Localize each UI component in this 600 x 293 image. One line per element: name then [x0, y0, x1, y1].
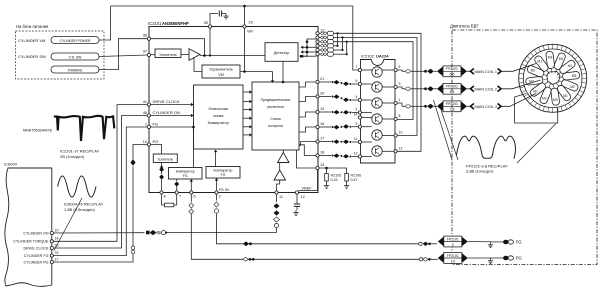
- node CYLINDER POWER: [51, 37, 99, 44]
- svg-text:2: 2: [452, 243, 454, 247]
- logic Логическая схема Коммутатор box: [194, 85, 244, 149]
- svg-text:35: 35: [204, 21, 208, 25]
- svg-text:R2106: R2106: [351, 174, 362, 178]
- svg-text:19: 19: [320, 107, 324, 111]
- ground C12: [293, 210, 298, 215]
- svg-text:MAIN COIL 3: MAIN COIL 3: [475, 105, 497, 109]
- node MAIN COIL 3: [467, 104, 501, 110]
- junction rail-pin29: [243, 5, 246, 8]
- svg-text:Двигатель БВГ: Двигатель БВГ: [450, 24, 479, 29]
- label IC6004-76 REC/PLAY: [64, 202, 104, 213]
- pins 21 20 19 16 17 18: [316, 77, 324, 157]
- wire coil 3 to motor: [502, 94, 537, 107]
- pin 35: [204, 21, 212, 28]
- wire CYLINDER POWER to VM rail: [99, 6, 111, 40]
- svg-text:12: 12: [399, 147, 403, 151]
- wire W3 beads: [243, 257, 438, 261]
- svg-text:CYLINDER POWER: CYLINDER POWER: [60, 39, 91, 43]
- svg-text:M1: M1: [538, 60, 543, 64]
- svg-text:CTL SW: CTL SW: [69, 56, 82, 60]
- svg-text:FP2101: FP2101: [447, 237, 459, 241]
- wire net A to IC2102 pin12: [333, 33, 421, 151]
- pin 8: [160, 191, 166, 199]
- svg-text:DRIVE CLOCK: DRIVE CLOCK: [24, 246, 50, 250]
- svg-text:6: 6: [356, 79, 358, 83]
- wire coil 2 to motor: [502, 80, 541, 89]
- waveform MN6755324M7E head-switch: [54, 116, 115, 141]
- wire W3 pg out: [189, 194, 419, 259]
- svg-text:18: 18: [320, 150, 324, 154]
- wire W2 drive clock out: [214, 194, 419, 244]
- svg-text:2,8В (1ms/дел): 2,8В (1ms/дел): [466, 169, 494, 174]
- node FG terminal: [503, 240, 522, 245]
- capacitor C12 at pin 12: [294, 194, 300, 210]
- svg-text:10: 10: [451, 259, 455, 263]
- svg-text:IC6004: IC6004: [4, 162, 18, 167]
- svg-text:M3: M3: [529, 79, 534, 83]
- op-amp A3 (lower triangle): [274, 163, 286, 181]
- connector FP2101 3,4: [437, 83, 467, 94]
- svg-text:MAIN COIL 2: MAIN COIL 2: [475, 87, 497, 91]
- svg-text:Коммутатор: Коммутатор: [208, 121, 229, 125]
- wire pin41 to logic: [151, 103, 194, 106]
- svg-text:10: 10: [399, 131, 403, 135]
- svg-text:14: 14: [354, 113, 358, 117]
- ferrite beads IC2101 to IC2102: [319, 80, 359, 159]
- wire motor common loop: [515, 94, 558, 124]
- wire pin10 PG: [151, 145, 162, 155]
- svg-text:IC2102: IC2102: [361, 54, 375, 59]
- wire det arrow 3: [301, 55, 307, 58]
- svg-text:Усилитель: Усилитель: [157, 158, 173, 162]
- svg-text:CYLINDER PG: CYLINDER PG: [24, 260, 49, 264]
- wire comparator2 to logic: [214, 150, 217, 167]
- wire net C pair: [333, 41, 348, 56]
- svg-text:PG: PG: [516, 256, 522, 261]
- pin 10 PG: [143, 139, 159, 146]
- wire VM to IC2102 pin7: [353, 6, 359, 70]
- svg-text:Детектор: Детектор: [274, 51, 290, 55]
- pin 1 FG: [145, 122, 158, 129]
- svg-text:FG: FG: [153, 122, 159, 127]
- svg-text:4: 4: [356, 95, 358, 99]
- svg-text:CYLINDER ON: CYLINDER ON: [23, 231, 49, 235]
- svg-text:76: 76: [55, 251, 59, 255]
- wire pin13 to R2106: [319, 168, 347, 174]
- wire PG to pin10: [53, 145, 147, 263]
- wire comp1 to pin7: [174, 179, 179, 191]
- node CTL SW: [51, 53, 99, 60]
- node MAIN COIL 2: [467, 86, 501, 92]
- motor coil labels: [529, 55, 576, 102]
- capacitor C35 at pin 35: [210, 11, 226, 25]
- junction limiter-VM: [243, 70, 246, 73]
- label VREF: [302, 187, 313, 191]
- svg-text:3: 3: [399, 82, 401, 86]
- wire preamp outputs: [297, 82, 316, 168]
- resistor R between pins 8 and 7: [162, 194, 177, 207]
- wire W2 beads: [243, 241, 437, 246]
- svg-text:IC2101-37 REC/PLAY: IC2101-37 REC/PLAY: [60, 149, 100, 154]
- wire FG to pin1: [53, 127, 147, 256]
- svg-text:TRIWAVE: TRIWAVE: [67, 69, 83, 73]
- ground PG lead: [488, 258, 493, 263]
- svg-text:VREF: VREF: [302, 187, 313, 191]
- node MAIN COIL 1: [467, 69, 501, 75]
- motor coils: [525, 51, 580, 106]
- wire net B to IC2102 pin10: [333, 38, 417, 136]
- svg-text:VM: VM: [247, 30, 253, 34]
- wire FG lead: [468, 241, 504, 244]
- waveform FP2101-3-8: [457, 136, 516, 159]
- wire pin1 FG to logic: [151, 126, 194, 128]
- connector FP2101 2: [438, 236, 468, 247]
- svg-text:11: 11: [279, 195, 283, 199]
- svg-text:MAIN COIL 1: MAIN COIL 1: [475, 70, 497, 74]
- svg-text:13: 13: [320, 163, 324, 167]
- svg-text:0,47: 0,47: [351, 178, 358, 182]
- label CYLINDER VM: [18, 38, 45, 43]
- svg-text:17: 17: [55, 257, 59, 261]
- pin 7: [175, 191, 181, 199]
- motor dashed box Двигатель БВГ: [450, 24, 597, 265]
- svg-text:2В (1ms/дел): 2В (1ms/дел): [60, 154, 85, 159]
- svg-text:Компаратор: Компаратор: [176, 169, 195, 173]
- pin 13 (IC2101): [316, 163, 324, 170]
- svg-text:10: 10: [143, 140, 147, 144]
- svg-text:8: 8: [399, 114, 401, 118]
- svg-text:FG IN: FG IN: [219, 188, 229, 192]
- wire pin35 internal: [209, 28, 211, 57]
- node TRIWAVE: [51, 66, 99, 73]
- svg-text:M2: M2: [559, 57, 564, 61]
- svg-text:FP2101: FP2101: [447, 254, 459, 258]
- wire IC2102 out to FP2101 7,8: [397, 103, 437, 109]
- wire TORQUE to pin41: [53, 105, 147, 242]
- svg-text:AN3850NFHP: AN3850NFHP: [162, 21, 189, 26]
- wire amp-A1: [181, 54, 189, 56]
- ground R2105: [324, 183, 329, 188]
- leader sine label: [54, 198, 82, 251]
- wire det arrow 2: [301, 50, 317, 53]
- svg-text:48: 48: [143, 111, 147, 115]
- wire FG IN label: [219, 188, 229, 192]
- svg-text:CYLINDER TORQUE: CYLINDER TORQUE: [13, 240, 49, 244]
- ground R2106: [344, 183, 349, 188]
- wire pin48 to logic: [151, 114, 194, 117]
- motor stator ring: [519, 44, 587, 112]
- leader line 1: [434, 100, 453, 160]
- svg-text:M2: M2: [570, 85, 575, 89]
- svg-text:7: 7: [356, 65, 358, 69]
- components on W1: [146, 230, 167, 235]
- waveform IC6004-76 sine: [58, 176, 96, 197]
- driver transistors Q1-Q6: [372, 67, 382, 156]
- pin 36: [143, 34, 151, 41]
- svg-text:6: 6: [194, 195, 196, 199]
- wire IC2102 out to FP2101 5,6: [397, 69, 437, 74]
- pin 11: [275, 191, 283, 199]
- svg-text:5: 5: [399, 65, 401, 69]
- wire FG down to comparator: [192, 126, 195, 168]
- svg-text:Предварительные: Предварительные: [261, 98, 291, 102]
- wire amp FG to pin8: [159, 163, 164, 191]
- wire coil 1 to motor: [502, 64, 537, 72]
- ground at C35: [223, 14, 228, 19]
- svg-text:8: 8: [164, 195, 166, 199]
- wire IC2102 out to FP2101 3,4: [397, 86, 437, 91]
- svg-text:R2105: R2105: [331, 174, 342, 178]
- svg-text:M1: M1: [568, 64, 573, 68]
- pin 3: [215, 191, 221, 199]
- connector FP2101 10: [438, 253, 468, 264]
- svg-text:FG: FG: [516, 240, 522, 245]
- IC2102 right pins: [394, 65, 402, 153]
- wire det top tap: [306, 39, 317, 43]
- connector FP2101 7,8: [437, 101, 467, 112]
- comparator Компаратор FG 2: [206, 167, 240, 179]
- svg-text:1: 1: [145, 123, 147, 127]
- svg-text:29: 29: [249, 21, 253, 25]
- op-amp A2 (upper triangle): [278, 150, 290, 163]
- label FP2101-3-8 REC/PLAY: [466, 164, 508, 174]
- wire VM top rail: [111, 5, 353, 7]
- label MN6755324M7E: [23, 128, 53, 133]
- svg-text:IC6004-76 REC/PLAY: IC6004-76 REC/PLAY: [64, 202, 104, 207]
- svg-text:17: 17: [320, 136, 324, 140]
- wire limiter to preamp: [271, 72, 274, 84]
- svg-text:CYLINDER SW: CYLINDER SW: [18, 54, 46, 59]
- svg-text:1: 1: [399, 98, 401, 102]
- svg-text:PG: PG: [153, 139, 159, 144]
- svg-text:0,33: 0,33: [331, 178, 338, 182]
- svg-text:Схема: Схема: [270, 117, 281, 121]
- wire limiter output: [240, 71, 273, 73]
- svg-text:VM: VM: [218, 73, 223, 77]
- leader line 2: [439, 104, 458, 160]
- power connector dashed box (На блок питания): [16, 31, 105, 79]
- wire A1 to limiter input: [194, 57, 202, 72]
- wire det arrow 1: [301, 46, 317, 49]
- ground FG lead: [488, 242, 493, 247]
- svg-text:контроля: контроля: [268, 124, 283, 128]
- svg-text:FG: FG: [183, 174, 188, 178]
- svg-text:IC2101: IC2101: [148, 21, 162, 26]
- svg-text:M3: M3: [548, 55, 553, 59]
- wire detector sense vertical: [306, 39, 308, 57]
- svg-text:41: 41: [143, 100, 147, 104]
- wire net C to IC2102 pin8: [333, 42, 413, 120]
- pins 23-28 drive outputs: [316, 29, 325, 56]
- svg-text:3: 3: [219, 195, 221, 199]
- svg-text:1,5В (0.5ms/дел): 1,5В (0.5ms/дел): [64, 207, 95, 212]
- node PG terminal: [503, 256, 522, 261]
- pin 37: [143, 50, 151, 57]
- svg-text:12: 12: [301, 195, 305, 199]
- pin 29 VM: [243, 21, 253, 34]
- resistor R2106: [345, 174, 361, 184]
- amplifier Усилитель (FG): [153, 154, 177, 163]
- op-amp U IC2101 AN3850NFHP box: [148, 21, 318, 193]
- wire net B pair: [333, 36, 343, 51]
- preamp Предварительные усилители box: [252, 82, 299, 150]
- svg-text:M1: M1: [563, 94, 568, 98]
- label IC2101-37 REC/PLAY: [60, 149, 100, 160]
- svg-text:10: 10: [55, 228, 59, 232]
- svg-text:схема: схема: [213, 114, 224, 118]
- wire A1 output to Детектор: [200, 55, 265, 57]
- svg-text:UA224: UA224: [376, 54, 389, 59]
- svg-text:M3: M3: [553, 98, 558, 102]
- svg-text:На блок питания: На блок питания: [16, 24, 48, 29]
- wire arrows logic to preamp: [243, 90, 252, 136]
- svg-text:M2: M2: [542, 97, 547, 101]
- label CYLINDER SW: [18, 54, 46, 59]
- svg-text:14: 14: [55, 237, 59, 241]
- pin 48 CYLINDER ON: [143, 110, 180, 117]
- svg-text:CYLINDER ON: CYLINDER ON: [153, 110, 180, 115]
- wire detector to preamp: [282, 61, 284, 82]
- pin 41 DRIVE CLOCK: [143, 99, 180, 106]
- svg-text:Усилитель: Усилитель: [159, 53, 177, 57]
- svg-text:CYLINDER VM: CYLINDER VM: [18, 38, 45, 43]
- svg-text:DRIVE CLOCK: DRIVE CLOCK: [153, 99, 180, 104]
- wire CTL SW to pin 37: [99, 55, 147, 57]
- wire pin3 to comp2: [215, 178, 218, 191]
- wire detector right feed: [300, 55, 317, 58]
- wire pin11 chain: [274, 194, 280, 232]
- svg-text:усилители: усилители: [267, 105, 284, 109]
- svg-text:11: 11: [354, 137, 358, 141]
- junction preamp-det: [282, 81, 285, 84]
- IC2102 left pins: [354, 65, 362, 158]
- leader line 3 to motor: [517, 124, 556, 164]
- motor rotor center: [547, 72, 560, 85]
- junction R2105: [325, 167, 328, 170]
- driver U IC2102 UA224 box: [361, 54, 396, 164]
- wire pin36 net: [151, 39, 205, 56]
- wire VM vertical: [244, 28, 246, 71]
- svg-text:16: 16: [320, 122, 324, 126]
- label На блок питания: [16, 24, 48, 29]
- svg-text:37: 37: [143, 50, 147, 54]
- svg-text:Компаратор: Компаратор: [214, 168, 233, 172]
- svg-text:21: 21: [320, 77, 324, 81]
- comparator Компаратор FG 1: [169, 168, 203, 180]
- svg-text:M1: M1: [533, 90, 538, 94]
- svg-text:13: 13: [354, 152, 358, 156]
- op-amp A1 triangle: [189, 49, 200, 61]
- svg-text:M2: M2: [531, 68, 536, 72]
- IC6004 pins: [13, 228, 58, 264]
- connector FP2101 5,6: [437, 66, 467, 77]
- pin 12: [295, 191, 304, 199]
- svg-text:2: 2: [356, 108, 358, 112]
- svg-text:20: 20: [320, 91, 324, 95]
- amplifier Усилитель (top): [155, 49, 181, 58]
- wire CLOCK to pin48: [53, 116, 147, 249]
- IC IC6004 torn box: [4, 162, 52, 287]
- wire pin37-amp: [151, 54, 156, 56]
- wire pin6 to comp1: [190, 179, 193, 191]
- detector Детектор box: [265, 43, 298, 62]
- wire pin13 to VREF: [299, 170, 318, 191]
- wire pin29 to VM rail: [244, 6, 246, 25]
- limiter Ограничитель VM box: [202, 65, 240, 78]
- junction pin36-output: [203, 54, 206, 57]
- wire net A pair: [333, 32, 338, 47]
- pin 6: [190, 191, 196, 199]
- ferrite bead + resistor bundle: [319, 31, 333, 56]
- svg-text:M3: M3: [572, 74, 577, 78]
- svg-text:Логическая: Логическая: [208, 107, 228, 111]
- svg-text:MN6755324M7E: MN6755324M7E: [23, 128, 53, 133]
- svg-text:FG: FG: [221, 173, 226, 177]
- wire PG lead: [468, 257, 504, 259]
- svg-text:7: 7: [179, 195, 181, 199]
- wire TRIWAVE to pin 36: [99, 39, 147, 70]
- wire W1 cylinder on: [53, 232, 276, 235]
- svg-text:36: 36: [143, 34, 147, 38]
- svg-text:9: 9: [356, 122, 358, 126]
- IC2102 internal wires: [362, 70, 395, 157]
- resistor R2105: [325, 168, 341, 183]
- wire pin11 to A3: [277, 180, 280, 191]
- svg-text:CYLINDER FG: CYLINDER FG: [24, 254, 49, 258]
- svg-text:Ограничитель: Ограничитель: [209, 68, 233, 72]
